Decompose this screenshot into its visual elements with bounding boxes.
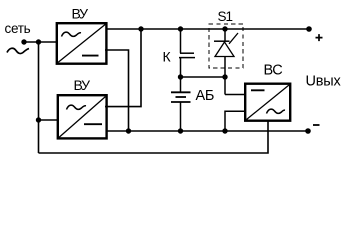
svg-text:АБ: АБ [196, 88, 215, 104]
wire K lower lead [180, 58, 182, 92]
S1 dashed enclosure [209, 24, 243, 68]
wire cross link to thyristor node [181, 76, 226, 78]
node VU2 input branch [36, 117, 41, 122]
battery AB plate long top [171, 91, 191, 93]
battery AB plate long bottom [171, 101, 191, 103]
svg-text:ВУ: ВУ [72, 6, 89, 22]
battery AB plate short middle [176, 96, 187, 98]
svg-text:S1: S1 [218, 9, 233, 24]
svg-text:Uвых: Uвых [306, 74, 342, 90]
wire K upper lead [180, 29, 182, 53]
svg-text:ВС: ВС [264, 63, 283, 79]
thyristor S1 triangle [215, 42, 234, 57]
wire to VU2 input [39, 119, 59, 121]
wire battery lower lead [180, 102, 182, 131]
wire positive rail [107, 28, 310, 30]
node battery minus junction [178, 128, 183, 133]
wire VS lower input [225, 111, 245, 131]
VU1 AC tilde [62, 32, 82, 36]
VU1 diagonal [58, 24, 105, 62]
VS DC bar [251, 89, 265, 91]
wire thyristor bottom lead [224, 57, 226, 95]
wire VS upper input [225, 94, 245, 96]
wire thyristor top lead [224, 29, 226, 42]
wire VU2 upper output [105, 29, 141, 107]
AC source tilde [7, 48, 29, 53]
wire VU1 lower output [105, 50, 129, 131]
contactor K upper plate [180, 52, 194, 54]
VU1 DC bar [82, 55, 99, 57]
node plus terminal [306, 26, 312, 32]
VU2 AC tilde [67, 105, 87, 109]
thyristor S1 gate [229, 33, 238, 44]
node K top [178, 26, 183, 31]
label minus [313, 124, 320, 126]
VU2 diagonal [59, 97, 105, 138]
node VS minus junction [222, 128, 227, 133]
converter VS box [245, 84, 290, 121]
node thyristor anode on plus rail [222, 26, 227, 31]
svg-text:К: К [163, 49, 172, 65]
node VU2 plus junction [138, 26, 143, 31]
wire bottom AC line [39, 121, 269, 153]
node mains branch [36, 39, 41, 44]
label + [316, 34, 323, 41]
thyristor S1 cathode bar [214, 40, 230, 42]
svg-text:сеть: сеть [5, 21, 31, 36]
node сеть terminal [21, 39, 26, 44]
wire left vertical [38, 42, 40, 153]
wire mains to VU1 [24, 41, 56, 43]
node battery top junction [178, 74, 183, 79]
rectifier VU1 box [57, 23, 107, 64]
wire negative rail [107, 130, 309, 132]
node VU1 minus junction [126, 128, 131, 133]
VU2 DC bar [84, 123, 102, 125]
VS diagonal [247, 85, 290, 120]
svg-text:ВУ: ВУ [74, 77, 91, 93]
node thyristor cathode junction [222, 74, 227, 79]
contactor K lower plate [179, 57, 195, 59]
VS AC tilde [267, 109, 286, 113]
node minus terminal [305, 128, 311, 134]
rectifier VU2 box [58, 95, 107, 138]
